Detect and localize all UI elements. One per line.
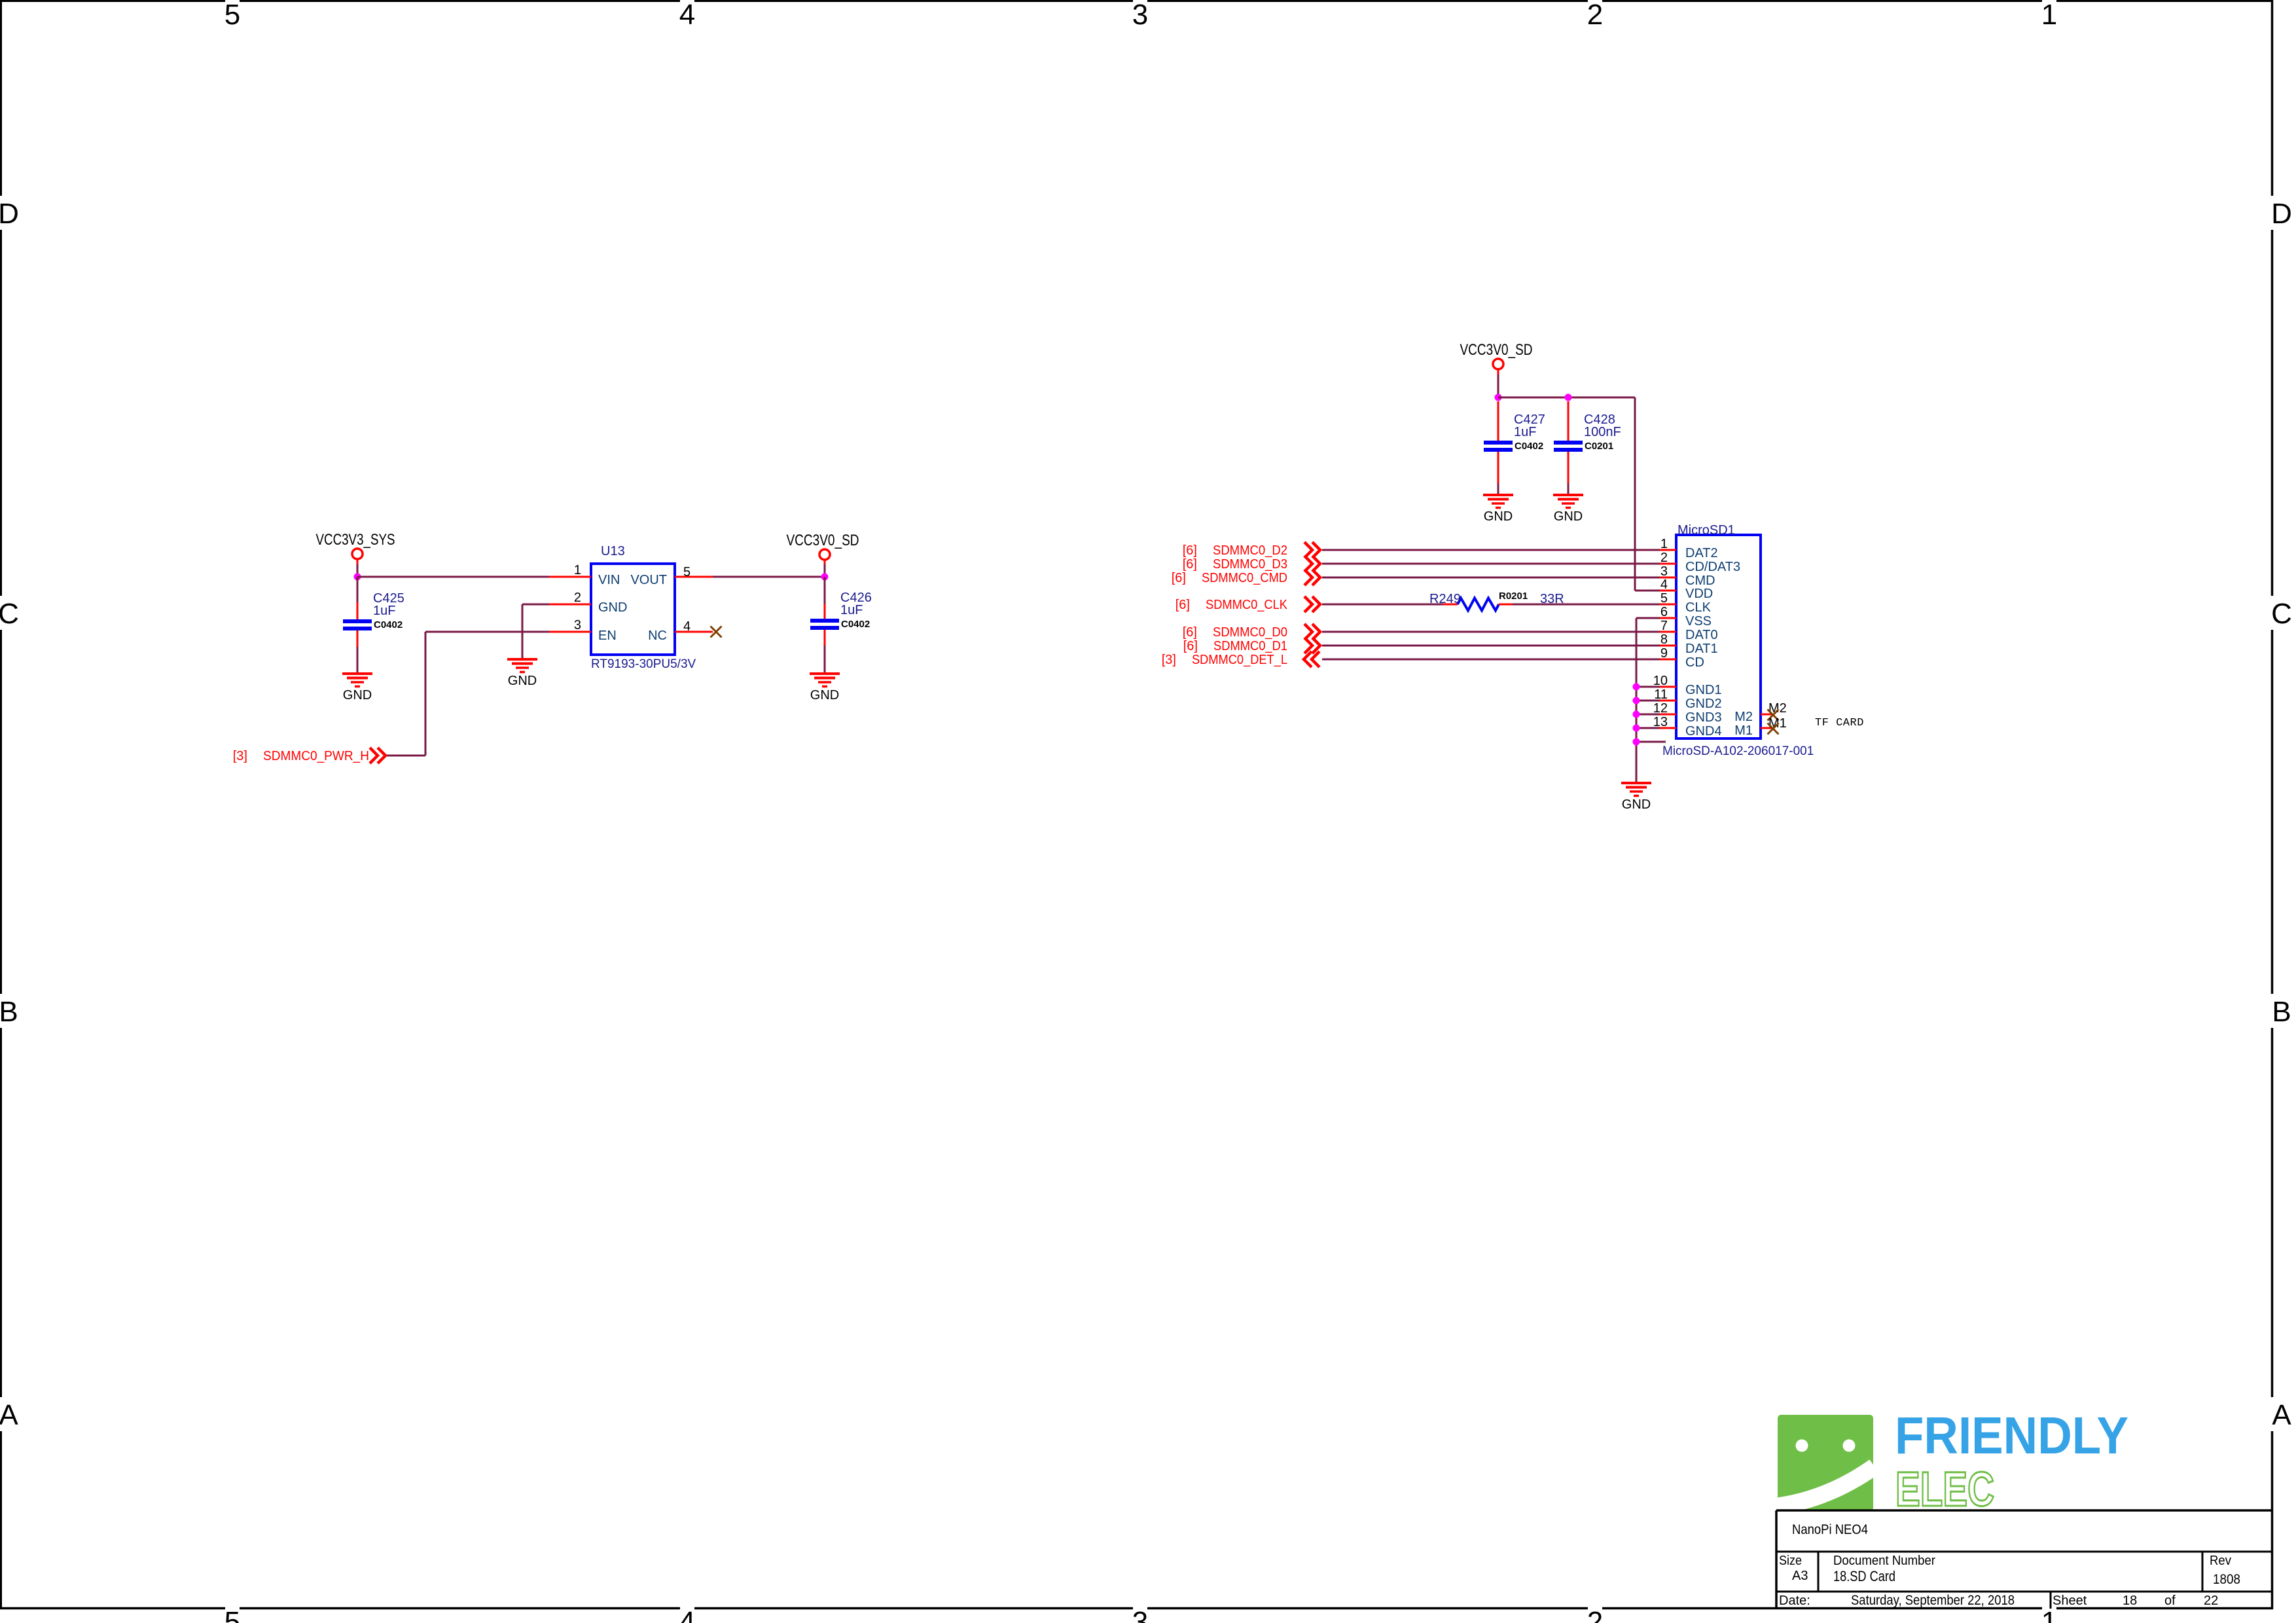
svg-text:3: 3 [574, 618, 581, 632]
junction [1565, 394, 1572, 401]
svg-text:VIN: VIN [598, 573, 620, 587]
wire VCC3V3_SYS down to junction [357, 564, 359, 577]
wire C426 to ground [824, 630, 826, 674]
svg-text:10: 10 [1653, 674, 1668, 688]
svg-text:C0402: C0402 [1515, 441, 1543, 452]
svg-text:DAT2: DAT2 [1685, 546, 1718, 560]
svg-text:CD: CD [1685, 655, 1704, 670]
svg-text:R0201: R0201 [1499, 591, 1528, 602]
U13 pin 2 GND [549, 591, 591, 605]
svg-text:[3]: [3] [1162, 653, 1176, 667]
svg-text:2: 2 [1587, 1606, 1603, 1623]
net label SDMMC0_D3 [1183, 556, 1320, 572]
svg-text:[6]: [6] [1172, 571, 1186, 585]
MicroSD1 pin 12 GND3 [1653, 701, 1722, 725]
ground [1621, 783, 1651, 812]
svg-text:NC: NC [648, 629, 667, 643]
svg-text:VDD: VDD [1685, 587, 1713, 601]
wire GND pin row 1112 [1636, 727, 1660, 729]
svg-text:B: B [0, 996, 18, 1028]
svg-text:VSS: VSS [1685, 614, 1712, 629]
ground [507, 659, 537, 688]
svg-text:D: D [2271, 198, 2292, 230]
wire GND pin row 1049 [1636, 686, 1660, 688]
svg-text:[6]: [6] [1175, 598, 1190, 612]
svg-text:5: 5 [683, 565, 691, 579]
svg-text:1uF: 1uF [1514, 425, 1536, 439]
svg-text:Size: Size [1779, 1554, 1802, 1568]
svg-text:1: 1 [1660, 537, 1668, 551]
junction [821, 574, 829, 581]
MicroSD1 pin 8 DAT1 [1660, 632, 1718, 656]
MicroSD1 pin 3 CMD [1660, 564, 1715, 588]
junction [1495, 394, 1502, 401]
power symbol VCC3V0_SD (right) [1460, 341, 1533, 374]
junction [1633, 725, 1640, 732]
svg-text:SDMMC0_DET_L: SDMMC0_DET_L [1192, 653, 1287, 667]
wire SDMMC0_CLK left [1322, 604, 1443, 606]
svg-text:DAT1: DAT1 [1685, 642, 1718, 656]
svg-text:3: 3 [1132, 1606, 1148, 1623]
wire SDMMC0_D1 [1322, 645, 1660, 647]
net label SDMMC0_D1 [1183, 638, 1320, 653]
net label SDMMC0_D2 [1183, 542, 1320, 558]
svg-text:of: of [2164, 1594, 2176, 1608]
svg-text:VCC3V0_SD: VCC3V0_SD [787, 532, 859, 549]
MicroSD1 pin 9 CD [1660, 646, 1704, 670]
svg-text:CD/DAT3: CD/DAT3 [1685, 560, 1740, 574]
wire SDMMC0_D3 [1322, 563, 1660, 565]
net label SDMMC0_DET_L [1162, 651, 1319, 667]
svg-text:C0402: C0402 [374, 619, 403, 630]
svg-text:SDMMC0_PWR_H: SDMMC0_PWR_H [263, 749, 369, 763]
svg-text:3: 3 [1132, 0, 1148, 31]
wire U13 EN to SDMMC0_PWR_H [386, 632, 549, 756]
junction [354, 574, 361, 581]
svg-text:C0201: C0201 [1585, 441, 1613, 452]
svg-text:2: 2 [1587, 0, 1603, 31]
svg-text:1: 1 [574, 563, 581, 577]
svg-text:SDMMC0_D0: SDMMC0_D0 [1213, 625, 1287, 640]
capacitor C425 [343, 591, 404, 630]
capacitor C428 leads [1568, 401, 1570, 495]
capacitor C427 [1484, 412, 1545, 452]
U13 pin 3 EN [549, 618, 591, 632]
junction [1633, 711, 1640, 718]
wire GND pin row 1070 [1636, 700, 1660, 702]
svg-text:Sheet: Sheet [2053, 1594, 2087, 1608]
wire U13 pin2 to ground [522, 604, 549, 659]
svg-text:GND2: GND2 [1685, 697, 1722, 711]
svg-text:9: 9 [1660, 646, 1668, 661]
svg-text:GND: GND [1554, 509, 1583, 524]
svg-text:GND4: GND4 [1685, 724, 1722, 739]
wire VCC3V0_SD down [1498, 374, 1499, 397]
svg-text:3: 3 [1660, 564, 1668, 579]
wire power to junction [824, 564, 826, 577]
svg-text:CMD: CMD [1685, 574, 1715, 588]
junction [1633, 739, 1640, 746]
power symbol VCC3V0_SD (left) [787, 532, 859, 565]
svg-text:M1: M1 [1734, 723, 1753, 738]
svg-text:C: C [0, 598, 19, 630]
svg-text:2: 2 [1660, 551, 1668, 565]
U13 pin 4 NC [675, 619, 713, 634]
svg-text:GND1: GND1 [1685, 683, 1722, 697]
svg-text:13: 13 [1653, 715, 1668, 729]
U13 pin 5 VOUT [675, 565, 713, 579]
svg-text:22: 22 [2204, 1594, 2218, 1608]
svg-text:12: 12 [1653, 701, 1668, 716]
wire VDD rail [1498, 397, 1660, 591]
svg-text:C0402: C0402 [841, 619, 870, 630]
svg-text:NanoPi NEO4: NanoPi NEO4 [1792, 1522, 1868, 1537]
svg-text:SDMMC0_CLK: SDMMC0_CLK [1206, 598, 1288, 612]
svg-text:Saturday, September 22, 2018: Saturday, September 22, 2018 [1851, 1593, 2015, 1608]
svg-text:DAT0: DAT0 [1685, 628, 1718, 642]
svg-text:4: 4 [679, 0, 695, 31]
svg-text:[3]: [3] [233, 749, 247, 763]
svg-text:[6]: [6] [1183, 625, 1197, 640]
resistor R249 33R [1429, 591, 1564, 611]
MicroSD1 pin M1 [1734, 716, 1787, 738]
MicroSD1 pin 6 VSS [1660, 605, 1712, 629]
capacitor C428 [1554, 412, 1621, 452]
svg-text:R249: R249 [1429, 592, 1461, 606]
svg-text:MicroSD1: MicroSD1 [1677, 523, 1735, 538]
wire VSS to ground rail [1636, 618, 1660, 783]
svg-text:GND: GND [343, 688, 372, 702]
svg-text:6: 6 [1660, 605, 1668, 619]
op-amp U13 RT9193-30PU5/3V regulator [591, 544, 696, 671]
svg-text:18: 18 [2123, 1594, 2137, 1608]
wire junction down to C426 [824, 577, 826, 619]
capacitor C427 leads [1498, 401, 1499, 495]
svg-text:FRIENDLY: FRIENDLY [1895, 1406, 2128, 1465]
svg-text:B: B [2272, 996, 2291, 1028]
svg-text:U13: U13 [601, 544, 625, 558]
connector MicroSD1 MicroSD-A102-206017-001 [1662, 523, 1814, 758]
svg-text:8: 8 [1660, 632, 1668, 647]
svg-text:1808: 1808 [2213, 1572, 2240, 1587]
svg-text:18.SD Card: 18.SD Card [1833, 1568, 1895, 1584]
svg-text:[6]: [6] [1183, 639, 1198, 653]
ground [810, 674, 840, 702]
MicroSD1 pin 2 CD/DAT3 [1660, 551, 1740, 574]
no-connect M2 [1768, 710, 1779, 721]
svg-text:7: 7 [1660, 619, 1668, 633]
net label SDMMC0_PWR_H [233, 748, 386, 763]
svg-text:5: 5 [1660, 591, 1668, 606]
svg-text:4: 4 [679, 1606, 695, 1623]
ground [1553, 495, 1583, 524]
svg-text:C: C [2271, 598, 2292, 630]
title block [1776, 1510, 2272, 1609]
svg-text:100nF: 100nF [1584, 425, 1621, 439]
svg-text:1: 1 [2041, 0, 2057, 31]
wire C425 to ground [357, 630, 359, 674]
svg-text:1: 1 [2041, 1606, 2057, 1623]
svg-text:EN: EN [598, 629, 617, 643]
MicroSD1 pin 11 GND2 [1654, 687, 1721, 711]
no-connect M1 [1768, 723, 1779, 735]
svg-text:A: A [0, 1399, 18, 1431]
svg-text:VOUT: VOUT [630, 573, 667, 587]
svg-text:A3: A3 [1792, 1569, 1808, 1583]
svg-text:GND: GND [1622, 797, 1651, 812]
svg-text:Rev: Rev [2210, 1554, 2231, 1568]
svg-text:4: 4 [683, 619, 691, 634]
wire junction down to C425 [357, 577, 359, 619]
wire U13 VOUT to VCC3V0_SD [713, 576, 825, 578]
svg-text:GND3: GND3 [1685, 710, 1722, 725]
logo FriendlyElec [1775, 1406, 2128, 1516]
net label SDMMC0_CLK [1175, 596, 1320, 612]
ground [342, 674, 372, 702]
svg-text:GND: GND [810, 688, 839, 702]
svg-text:GND: GND [1484, 509, 1513, 524]
svg-text:SDMMC0_D3: SDMMC0_D3 [1213, 557, 1287, 572]
wire VCC3V3_SYS to U13 VIN [357, 576, 549, 578]
svg-text:VCC3V3_SYS: VCC3V3_SYS [316, 531, 395, 549]
power symbol VCC3V3_SYS [316, 531, 395, 564]
junction [1633, 697, 1640, 704]
net label SDMMC0_D0 [1183, 624, 1320, 640]
svg-text:RT9193-30PU5/3V: RT9193-30PU5/3V [591, 657, 696, 671]
svg-text:GND: GND [508, 674, 537, 688]
net label SDMMC0_CMD [1172, 570, 1320, 585]
wire SDMMC0_DET_L [1322, 659, 1660, 661]
wire SDMMC0_CMD [1322, 577, 1660, 579]
svg-text:2: 2 [574, 591, 581, 605]
svg-text:SDMMC0_D2: SDMMC0_D2 [1213, 543, 1287, 558]
svg-text:SDMMC0_CMD: SDMMC0_CMD [1202, 571, 1287, 585]
svg-text:4: 4 [1660, 577, 1668, 592]
capacitor C426 [810, 591, 872, 630]
svg-text:VCC3V0_SD: VCC3V0_SD [1460, 341, 1533, 359]
svg-text:ELEC: ELEC [1895, 1462, 1994, 1516]
svg-text:5: 5 [224, 0, 240, 31]
wire GND pin row 1091 [1636, 714, 1660, 716]
svg-text:D: D [0, 198, 19, 230]
U13 pin 1 VIN [549, 563, 591, 577]
svg-text:Date:: Date: [1779, 1594, 1810, 1608]
svg-text:[6]: [6] [1183, 543, 1197, 558]
svg-text:MicroSD-A102-206017-001: MicroSD-A102-206017-001 [1662, 744, 1814, 758]
MicroSD1 pin 4 VDD [1660, 577, 1713, 601]
MicroSD1 pin 13 GND4 [1653, 715, 1722, 739]
svg-text:11: 11 [1654, 687, 1668, 702]
svg-text:A: A [2272, 1399, 2291, 1431]
svg-text:M2: M2 [1734, 710, 1753, 724]
MicroSD1 pin M2 [1734, 701, 1787, 724]
svg-text:1uF: 1uF [840, 603, 863, 617]
wire SDMMC0_CLK right [1513, 604, 1660, 606]
svg-text:5: 5 [224, 1606, 240, 1623]
svg-text:TF CARD: TF CARD [1815, 717, 1864, 729]
svg-text:1uF: 1uF [373, 604, 395, 618]
svg-text:Document Number: Document Number [1833, 1554, 1935, 1568]
svg-text:[6]: [6] [1183, 557, 1197, 572]
MicroSD1 pin 10 GND1 [1653, 674, 1722, 697]
svg-text:GND: GND [598, 600, 627, 615]
ground [1483, 495, 1513, 524]
no-connect U13 pin 4 [711, 627, 722, 638]
MicroSD1 pin 7 DAT0 [1660, 619, 1718, 642]
junction [1633, 684, 1640, 691]
svg-text:CLK: CLK [1685, 600, 1712, 615]
MicroSD1 pin 5 CLK [1660, 591, 1712, 615]
wire SDMMC0_D0 [1322, 631, 1660, 633]
wire rail stub bottom [1636, 741, 1666, 743]
MicroSD1 pin 1 DAT2 [1660, 537, 1718, 560]
wire SDMMC0_D2 [1322, 549, 1660, 551]
svg-text:SDMMC0_D1: SDMMC0_D1 [1213, 639, 1287, 653]
